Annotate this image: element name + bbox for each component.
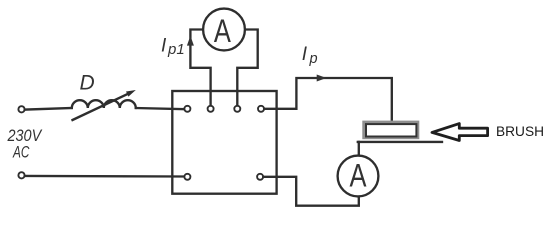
terminal 2 (box top row) (208, 106, 214, 112)
svg-text:BRUSH: BRUSH (496, 124, 544, 139)
commutator surface line under brush (358, 141, 442, 143)
wire: brush surface down to ammeter A2 top (358, 142, 360, 156)
svg-text:AC: AC (12, 142, 30, 161)
inductor D adjustment arrow (73, 94, 129, 120)
wire: supply bottom terminal to transformer terminal 5 (25, 175, 185, 178)
svg-text:I: I (161, 36, 167, 57)
terminal 3 (box top row) (234, 106, 240, 112)
ammeter A1 (primary current) (203, 9, 245, 51)
svg-text:p: p (309, 51, 318, 67)
wire: terminal 4 to brush (Ip path) (264, 78, 392, 121)
ammeter A2 (brush current) (338, 156, 379, 197)
terminal 4 (box top row) (258, 106, 264, 112)
brush element body (gray block) (362, 121, 419, 140)
wire: supply top terminal to inductor D (25, 108, 72, 110)
terminal 5 (box bottom left) (184, 174, 190, 180)
terminal: AC supply bottom (18, 172, 24, 178)
transformer box U1 (172, 91, 276, 194)
wire: inductor D to transformer terminal 1 (136, 108, 185, 109)
terminal 1 (box top row) (184, 106, 190, 112)
BRUSH pointer block arrow (432, 124, 488, 141)
arrowhead: Ip1 current arrow (up) on A1 left lead (187, 36, 194, 46)
terminal: AC supply top (18, 106, 24, 112)
svg-text:p1: p1 (167, 41, 185, 58)
arrowhead: inductor D arrow tip (126, 90, 136, 97)
wire: terminal 6 to ammeter A2 bottom (263, 177, 359, 206)
arrowhead: Ip current arrow (right) (317, 75, 327, 82)
svg-text:A: A (214, 13, 231, 49)
svg-text:A: A (350, 157, 367, 193)
terminal 6 (box bottom right) (257, 174, 263, 180)
inductor D (variable rheostat) (72, 100, 136, 108)
svg-text:I: I (302, 44, 308, 65)
svg-text:D: D (80, 72, 95, 95)
wire: ammeter A1 right lead (237, 30, 257, 106)
brush element inner face (366, 124, 416, 136)
wire: ammeter A1 left lead (190, 30, 210, 106)
